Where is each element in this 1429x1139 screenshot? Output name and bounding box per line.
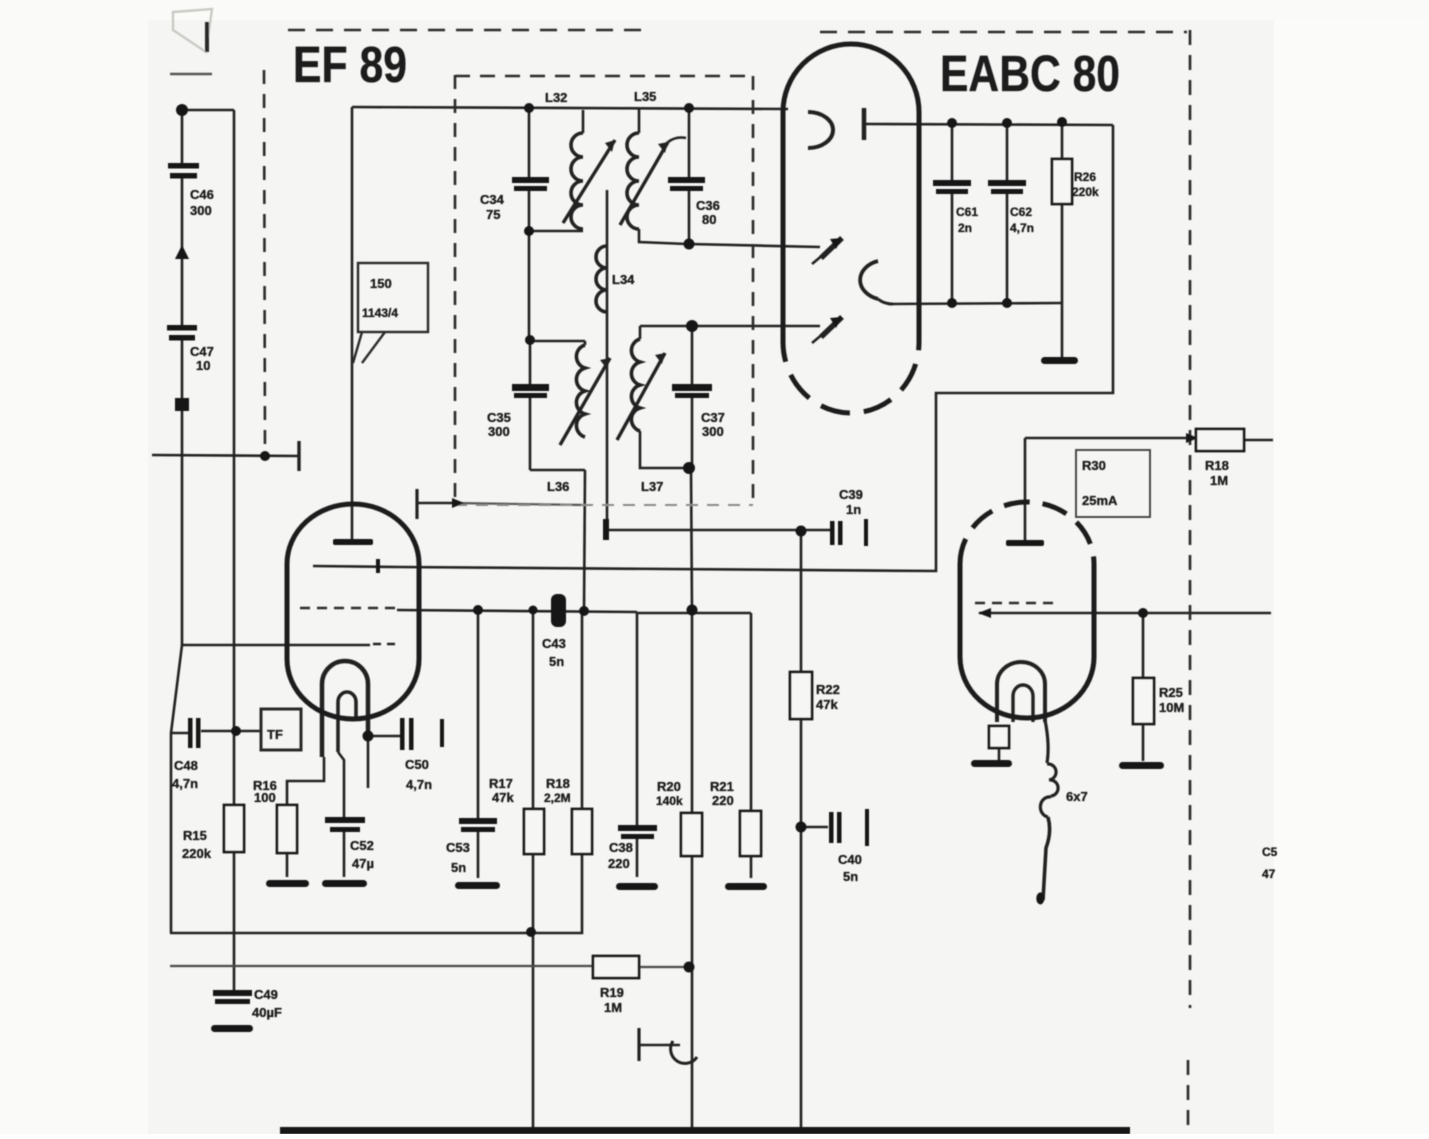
svg-text:C48: C48 <box>174 758 198 773</box>
svg-text:150: 150 <box>370 276 392 291</box>
svg-text:C34: C34 <box>480 192 505 207</box>
svg-text:C35: C35 <box>487 410 511 425</box>
svg-text:TF: TF <box>267 727 283 742</box>
svg-text:1143/4: 1143/4 <box>362 306 398 320</box>
svg-text:220k: 220k <box>1072 185 1099 199</box>
svg-text:R25: R25 <box>1159 685 1183 700</box>
svg-text:C37: C37 <box>701 410 725 425</box>
svg-text:10M: 10M <box>1159 700 1184 715</box>
svg-text:L34: L34 <box>612 272 635 287</box>
svg-text:C53: C53 <box>446 840 470 855</box>
svg-text:6x7: 6x7 <box>1066 789 1088 804</box>
svg-text:300: 300 <box>190 203 212 218</box>
svg-text:4,7n: 4,7n <box>172 776 198 791</box>
svg-text:C52: C52 <box>350 838 374 853</box>
svg-text:R30: R30 <box>1082 458 1106 473</box>
svg-text:100: 100 <box>254 790 276 805</box>
svg-text:R18: R18 <box>1205 458 1229 473</box>
svg-text:EF 89: EF 89 <box>293 36 407 93</box>
svg-text:R18: R18 <box>546 776 570 791</box>
svg-text:C43: C43 <box>542 636 566 651</box>
svg-text:C38: C38 <box>609 840 633 855</box>
svg-text:4,7n: 4,7n <box>406 777 432 792</box>
svg-text:5n: 5n <box>843 869 858 884</box>
svg-text:EABC 80: EABC 80 <box>940 45 1120 102</box>
svg-text:C61: C61 <box>956 205 978 219</box>
svg-text:2n: 2n <box>958 221 972 235</box>
svg-text:R19: R19 <box>600 985 624 1000</box>
svg-text:R22: R22 <box>816 682 840 697</box>
svg-text:220k: 220k <box>182 846 212 861</box>
svg-text:47: 47 <box>1262 867 1276 881</box>
svg-text:220: 220 <box>712 793 734 808</box>
svg-text:40µF: 40µF <box>252 1005 282 1020</box>
svg-text:C62: C62 <box>1010 205 1032 219</box>
svg-text:1M: 1M <box>1210 473 1228 488</box>
svg-text:300: 300 <box>488 424 510 439</box>
svg-text:C36: C36 <box>696 198 720 213</box>
svg-text:R26: R26 <box>1074 170 1096 184</box>
svg-text:4,7n: 4,7n <box>1010 221 1034 235</box>
svg-text:R21: R21 <box>710 779 734 794</box>
svg-text:1M: 1M <box>604 1000 622 1015</box>
svg-text:L36: L36 <box>547 479 569 494</box>
svg-text:C39: C39 <box>839 487 863 502</box>
svg-text:300: 300 <box>702 424 724 439</box>
svg-text:25mA: 25mA <box>1082 493 1118 508</box>
svg-text:C40: C40 <box>838 852 862 867</box>
svg-text:80: 80 <box>702 212 716 227</box>
svg-text:L32: L32 <box>545 90 567 105</box>
svg-text:C49: C49 <box>254 987 278 1002</box>
svg-text:C47: C47 <box>190 344 214 359</box>
svg-text:L37: L37 <box>641 479 663 494</box>
svg-text:C5: C5 <box>1262 845 1278 859</box>
svg-text:L35: L35 <box>634 89 656 104</box>
svg-text:10: 10 <box>196 358 210 373</box>
svg-text:5n: 5n <box>549 654 564 669</box>
svg-text:47k: 47k <box>492 790 514 805</box>
svg-text:47k: 47k <box>816 697 838 712</box>
svg-text:C46: C46 <box>190 187 214 202</box>
svg-text:2,2M: 2,2M <box>544 791 571 805</box>
svg-text:220: 220 <box>608 856 630 871</box>
svg-text:C50: C50 <box>405 757 429 772</box>
svg-text:5n: 5n <box>451 860 466 875</box>
svg-text:R17: R17 <box>489 776 513 791</box>
svg-text:75: 75 <box>486 207 500 222</box>
svg-text:140k: 140k <box>656 794 683 808</box>
svg-text:1n: 1n <box>846 502 861 517</box>
svg-text:R15: R15 <box>183 828 207 843</box>
svg-text:R20: R20 <box>657 779 681 794</box>
svg-text:47µ: 47µ <box>352 856 374 871</box>
